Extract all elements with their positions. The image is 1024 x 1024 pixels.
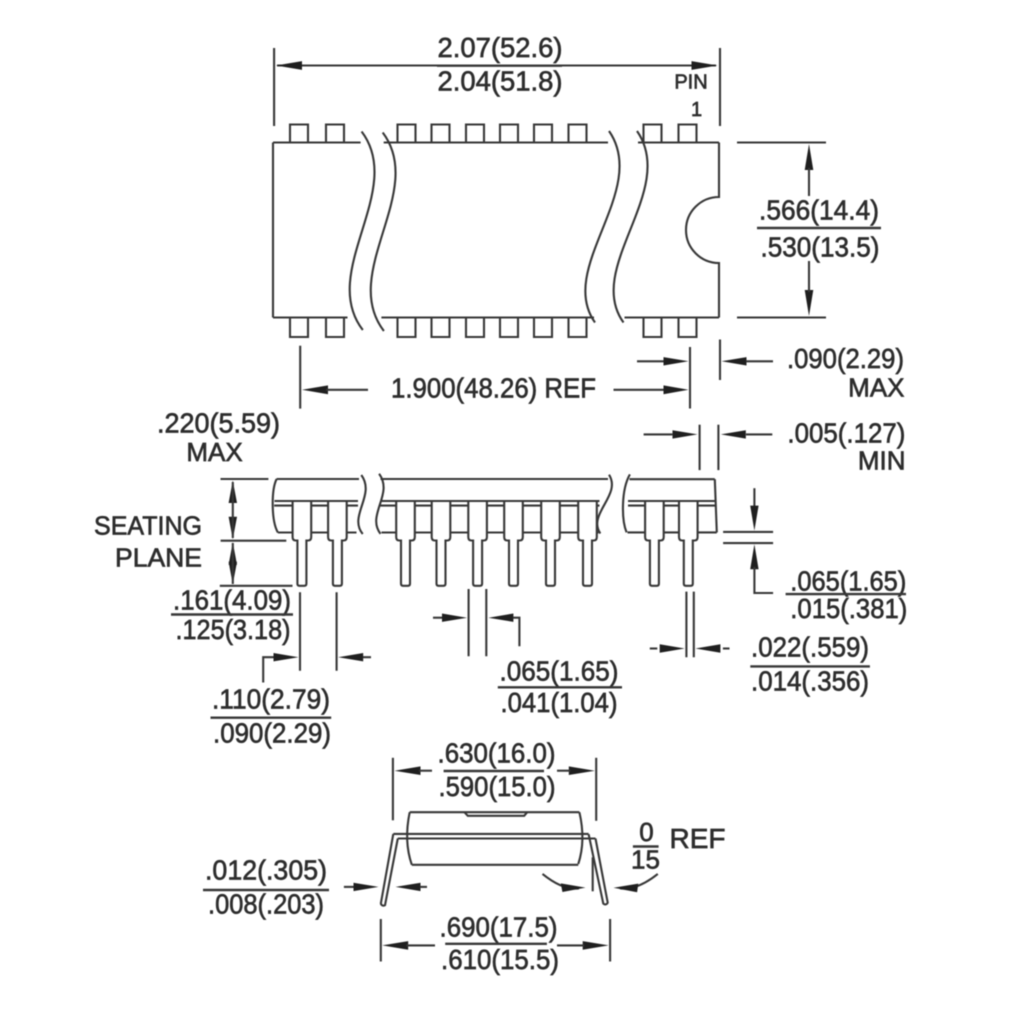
ext line side top left xyxy=(221,478,269,480)
svg-text:.022(.559): .022(.559) xyxy=(751,632,869,663)
svg-text:.610(15.5): .610(15.5) xyxy=(441,944,559,975)
dim .065 wide lead ext lines xyxy=(469,589,487,656)
dim 1.900 ext line left xyxy=(299,346,301,409)
dim 2.07 extension line left xyxy=(273,48,275,126)
dim .005 left arrow xyxy=(644,433,673,435)
side body segment2 top edge xyxy=(381,478,609,480)
svg-text:MIN: MIN xyxy=(858,446,906,476)
package body left edge xyxy=(272,143,274,318)
end body bottom edge xyxy=(412,864,579,866)
END VIEW GROUP xyxy=(203,737,726,975)
side pins segment2 xyxy=(396,501,415,586)
svg-text:0: 0 xyxy=(639,817,653,847)
dim .090 right arrow xyxy=(722,357,747,365)
svg-text:MAX: MAX xyxy=(848,373,904,403)
end body right edge xyxy=(578,812,582,864)
dim .110 left bracket arrow xyxy=(263,657,276,682)
dim .065/.015 up arrow with bracket xyxy=(750,544,758,569)
side pins segment3 xyxy=(645,501,664,586)
svg-text:.008(.203): .008(.203) xyxy=(208,888,324,919)
svg-text:.090(2.29): .090(2.29) xyxy=(213,718,331,749)
end body top edge xyxy=(410,811,580,813)
dim .065 left arrow xyxy=(433,617,443,619)
lead tip line left xyxy=(220,585,293,587)
side body left rounded end xyxy=(273,479,278,533)
fraction bar 0/15 xyxy=(633,845,659,847)
dim .690 tick left xyxy=(380,919,382,962)
dim .065/.015 down arrow xyxy=(753,488,755,507)
dim .090 left arrow xyxy=(637,360,666,362)
svg-text:2.04(51.8): 2.04(51.8) xyxy=(438,66,563,97)
TOP VIEW GROUP xyxy=(157,32,906,476)
bottom row pins xyxy=(290,318,697,338)
svg-text:.110(2.79): .110(2.79) xyxy=(212,684,330,715)
svg-text:SEATING: SEATING xyxy=(94,511,202,541)
fraction bar 2.07/2.04 xyxy=(437,64,562,66)
fraction bar .022/.014 xyxy=(750,665,870,667)
end body left edge xyxy=(407,812,412,865)
fraction bar .065/.015 xyxy=(786,593,906,595)
side body lead attach line lower xyxy=(274,505,715,507)
side body segment1 break edge xyxy=(358,475,365,534)
svg-text:.015(.381): .015(.381) xyxy=(790,593,907,624)
dim .110 center line 1 xyxy=(299,592,301,671)
svg-text:1: 1 xyxy=(691,99,702,121)
dim 2.07 extension line right xyxy=(719,48,721,126)
svg-text:1.900(48.26) REF: 1.900(48.26) REF xyxy=(391,373,596,404)
svg-text:.220(5.59): .220(5.59) xyxy=(157,408,280,439)
seating plane line xyxy=(221,540,287,542)
dim .630 ext line right xyxy=(595,758,597,821)
svg-text:.590(15.0): .590(15.0) xyxy=(439,771,556,802)
svg-text:15: 15 xyxy=(631,845,660,875)
dim .110 center line 2 xyxy=(336,592,338,671)
dim .110 right arrow xyxy=(338,653,363,661)
package body bottom edge xyxy=(273,316,719,318)
package body top edge xyxy=(273,141,719,143)
svg-text:.630(16.0): .630(16.0) xyxy=(438,737,556,768)
side body segment3 left break edge xyxy=(623,474,630,532)
dim .566 extension line top xyxy=(737,141,826,143)
right leg xyxy=(589,834,608,904)
fraction bar .566/.530 xyxy=(757,227,881,229)
svg-text:.041(1.04): .041(1.04) xyxy=(501,687,618,718)
left leg xyxy=(381,834,398,906)
dim 1.900 left arrow xyxy=(302,385,328,394)
dim 1.900 right arrow xyxy=(614,389,667,391)
fraction bar .161/.125 xyxy=(171,613,293,615)
svg-text:MAX: MAX xyxy=(186,437,242,467)
fraction bar .630/.590 xyxy=(444,770,544,772)
svg-text:.014(.356): .014(.356) xyxy=(751,665,869,696)
break lines pair 2 xyxy=(585,131,619,323)
side body segment3 top edge xyxy=(630,478,715,480)
side body segment1 bottom edge xyxy=(278,531,357,533)
side pins segment1 xyxy=(293,501,312,586)
dim .690 arrows and line xyxy=(382,941,408,950)
end body top ridge xyxy=(464,812,527,816)
dim .161 arrows xyxy=(229,542,237,565)
parting line lower xyxy=(398,837,596,839)
fraction bar .110/.090 xyxy=(211,717,332,719)
fraction bar .690/.610 xyxy=(445,943,547,945)
dim .065 right arrow with bracket xyxy=(488,614,513,622)
dim .012 left arrow xyxy=(344,886,355,888)
dim .005 tick left xyxy=(699,425,701,470)
svg-text:.090(2.29): .090(2.29) xyxy=(787,343,904,374)
dim .220 arrows xyxy=(229,481,237,504)
dim .005 tick right xyxy=(717,425,719,470)
dim .630 arrows and line xyxy=(395,766,421,775)
dim .012 right arrow xyxy=(396,883,421,891)
svg-text:.065(1.65): .065(1.65) xyxy=(500,655,619,686)
dim 2.07 dimension line xyxy=(277,64,716,66)
top row pins xyxy=(290,125,697,143)
dim .566 extension line bottom xyxy=(737,316,826,318)
angle reference line xyxy=(592,857,594,891)
side body segment1 top edge xyxy=(277,478,359,480)
svg-text:2.07(52.6): 2.07(52.6) xyxy=(438,32,563,63)
side body segment3 right edge xyxy=(715,479,717,532)
SIDE VIEW GROUP xyxy=(94,474,907,749)
side body lead attach line xyxy=(275,500,716,502)
svg-text:REF: REF xyxy=(670,823,726,854)
dim .022 left arrow xyxy=(650,647,658,649)
angle arc right xyxy=(620,874,658,889)
dim .005 right arrow xyxy=(721,430,746,438)
dim .022 right arrow xyxy=(695,644,720,652)
fraction bar .065/.041 xyxy=(498,686,622,688)
dim .065/.015 ext lines right xyxy=(723,532,773,543)
svg-text:PLANE: PLANE xyxy=(115,543,202,573)
side body segment2 right break edge xyxy=(597,475,612,534)
dim .022 narrow lead ext lines xyxy=(686,592,693,658)
side body segment2 left break edge xyxy=(376,474,383,534)
angle arc left xyxy=(543,874,580,889)
svg-text:.012(.305): .012(.305) xyxy=(205,854,327,885)
side body segment3 bottom edge xyxy=(628,531,717,533)
svg-text:.005(.127): .005(.127) xyxy=(787,418,905,449)
dim 2.07 arrow right xyxy=(692,61,718,70)
svg-text:.065(1.65): .065(1.65) xyxy=(790,565,906,596)
svg-text:.566(14.4): .566(14.4) xyxy=(759,195,879,226)
dim .566 arrow up xyxy=(805,144,814,170)
svg-text:PIN: PIN xyxy=(674,72,707,94)
svg-text:.690(17.5): .690(17.5) xyxy=(440,911,558,942)
dim .566 arrow down xyxy=(805,290,814,316)
package body right edge with index notch xyxy=(686,143,719,318)
dim .630 ext line left xyxy=(392,758,394,821)
parting line upper xyxy=(393,833,588,835)
svg-text:.530(13.5): .530(13.5) xyxy=(761,232,880,263)
break lines pair 1 xyxy=(350,132,375,331)
dim .690 tick right xyxy=(609,919,611,962)
svg-text:.161(4.09): .161(4.09) xyxy=(173,585,291,616)
fraction bar .012/.008 xyxy=(203,889,329,891)
side body segment2 bottom edge xyxy=(382,531,599,533)
ext line pin1 center xyxy=(689,347,691,409)
dim 2.07 arrow left xyxy=(276,61,302,70)
svg-text:.125(3.18): .125(3.18) xyxy=(176,614,291,645)
ext line package right edge xyxy=(719,340,721,381)
